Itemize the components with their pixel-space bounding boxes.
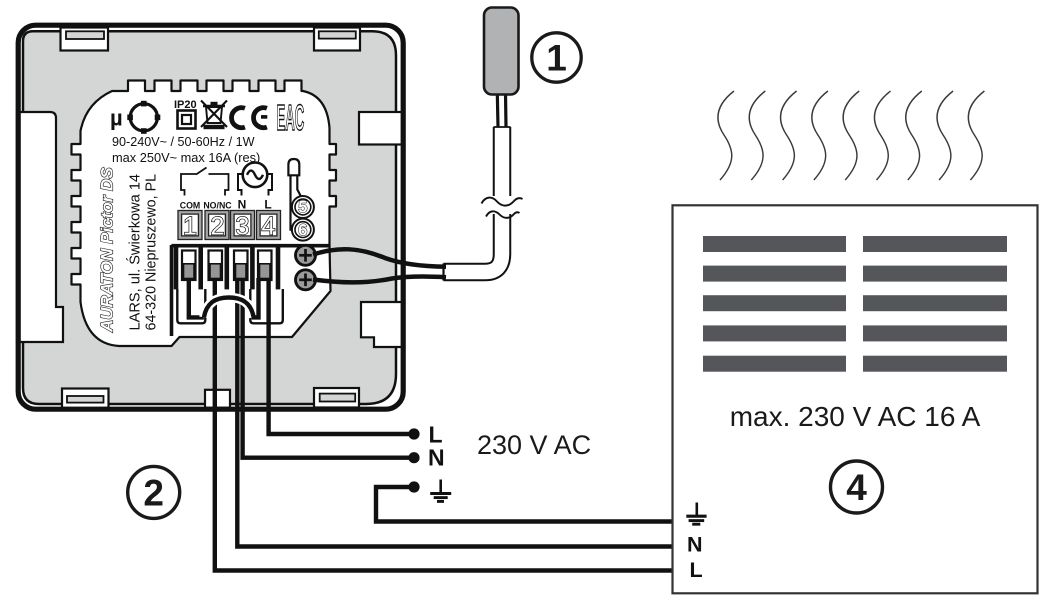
wire guide channel right <box>250 289 282 323</box>
terminal box 2 <box>205 211 229 241</box>
wire guide channel left <box>177 289 205 323</box>
wire from terminal 2 to heater L <box>215 279 674 571</box>
heater rating label <box>730 401 981 432</box>
sensor fixing screw upper <box>296 245 316 265</box>
svg-text:3: 3 <box>236 212 250 240</box>
svg-text:90-240V~ / 50-60Hz / 1W: 90-240V~ / 50-60Hz / 1W <box>112 135 255 149</box>
AC supply symbol <box>238 163 272 196</box>
svg-text:N: N <box>238 198 247 212</box>
clip tab top-left <box>61 28 109 51</box>
relay contact symbol <box>181 168 229 196</box>
svg-text:5: 5 <box>298 199 307 217</box>
svg-text:4: 4 <box>846 467 867 508</box>
sensor fixing screw lower <box>296 270 316 290</box>
brand vertical text AURATON Pictor DS <box>98 167 117 333</box>
svg-text:max. 230 V AC 16 A: max. 230 V AC 16 A <box>730 401 981 432</box>
svg-text:LARS, ul. Świerkowa 14: LARS, ul. Świerkowa 14 <box>126 174 144 331</box>
svg-text:N: N <box>428 445 445 471</box>
thermostat back housing gray plate <box>23 31 396 404</box>
svg-text:2: 2 <box>211 212 225 240</box>
address vertical text line 2 <box>144 174 160 331</box>
terminal labels COM NO/NC N L <box>180 198 272 212</box>
sensor terminal circle 6 <box>292 219 314 241</box>
mains earth node dot <box>408 481 419 492</box>
screw clamp 3 <box>234 251 248 281</box>
svg-text:L: L <box>264 198 271 212</box>
cable break squiggle <box>482 196 523 218</box>
step circle 2 <box>128 466 180 518</box>
svg-text:EAC: EAC <box>277 97 305 138</box>
mounting slot left <box>17 112 63 342</box>
sensor probe symbol <box>288 159 301 230</box>
heater N terminal label <box>687 533 703 557</box>
ratings text line 2 <box>112 150 260 165</box>
EAC mark <box>277 97 305 138</box>
CE mark <box>232 108 268 128</box>
wire pass notch bottom <box>205 390 230 408</box>
svg-text:4: 4 <box>262 212 276 240</box>
heater vent grille left column <box>703 236 846 372</box>
clip tab bottom-left <box>62 389 109 409</box>
micro logo <box>110 101 160 134</box>
screw clamp 4 <box>258 251 272 281</box>
screw clamp 1 <box>182 251 196 281</box>
terminal bay dividers <box>176 247 278 289</box>
sensor terminal circle 5 <box>292 196 314 218</box>
jumper wire terminal 1 to terminal 4 with hop <box>189 278 259 317</box>
heater earth symbol <box>686 503 706 525</box>
mains N node dot and label <box>408 445 444 471</box>
svg-text:N: N <box>687 533 703 557</box>
svg-text:1: 1 <box>183 212 197 240</box>
svg-text:L: L <box>690 558 703 582</box>
earth wire to heater <box>376 487 674 522</box>
svg-text:IP20: IP20 <box>174 99 197 111</box>
terminal box 3 <box>231 211 255 241</box>
terminal box 1 <box>178 211 202 241</box>
sensor cable tube <box>444 127 511 281</box>
mains L node dot and label <box>408 422 442 448</box>
wire from terminal 3 to mains N <box>243 279 410 458</box>
step circle 4 <box>831 461 883 513</box>
sensor head <box>484 8 519 95</box>
step circle 1 <box>532 33 581 82</box>
mounting notch right upper <box>359 112 403 145</box>
svg-text:2: 2 <box>143 473 164 514</box>
thermostat outer case frame <box>18 25 403 409</box>
heater L terminal label <box>690 558 703 582</box>
mounting notch right lower <box>361 302 403 347</box>
sensor wire lower <box>313 276 446 282</box>
heater box <box>673 205 1038 593</box>
wire from terminal 3 to heater N <box>237 279 674 547</box>
clip tab top-right <box>314 28 360 51</box>
ratings text line 1 <box>112 135 255 149</box>
svg-text:max 250V~ max 16A (res): max 250V~ max 16A (res) <box>112 150 260 165</box>
WEEE crossed-out bin mark <box>201 101 227 130</box>
svg-text:AURATON Pictor DS: AURATON Pictor DS <box>98 167 117 333</box>
svg-text:µ: µ <box>110 106 123 131</box>
IP20 mark <box>174 99 197 129</box>
address vertical text line 1 <box>126 174 144 331</box>
sensor wire upper <box>313 249 446 267</box>
heater vent grille right column <box>863 236 1007 372</box>
mains earth symbol <box>430 480 451 502</box>
heat waves <box>718 91 984 180</box>
svg-text:NO/NC: NO/NC <box>203 201 232 211</box>
svg-text:COM: COM <box>180 201 201 211</box>
terminal box 4 <box>257 211 281 241</box>
wire from terminal 4 to mains L <box>269 279 410 434</box>
sensor lead wires <box>497 93 506 127</box>
terminal block shelf line <box>172 244 331 248</box>
label plate <box>72 81 337 347</box>
clip tab bottom-right <box>314 388 359 408</box>
svg-text:230 V AC: 230 V AC <box>477 430 591 460</box>
svg-text:6: 6 <box>298 221 307 239</box>
label 230 V AC <box>477 430 591 460</box>
svg-text:1: 1 <box>546 38 567 79</box>
terminal bay left wall <box>170 245 174 336</box>
screw clamp 2 <box>209 251 223 281</box>
svg-text:64-320 Niepruszewo, PL: 64-320 Niepruszewo, PL <box>144 174 160 331</box>
